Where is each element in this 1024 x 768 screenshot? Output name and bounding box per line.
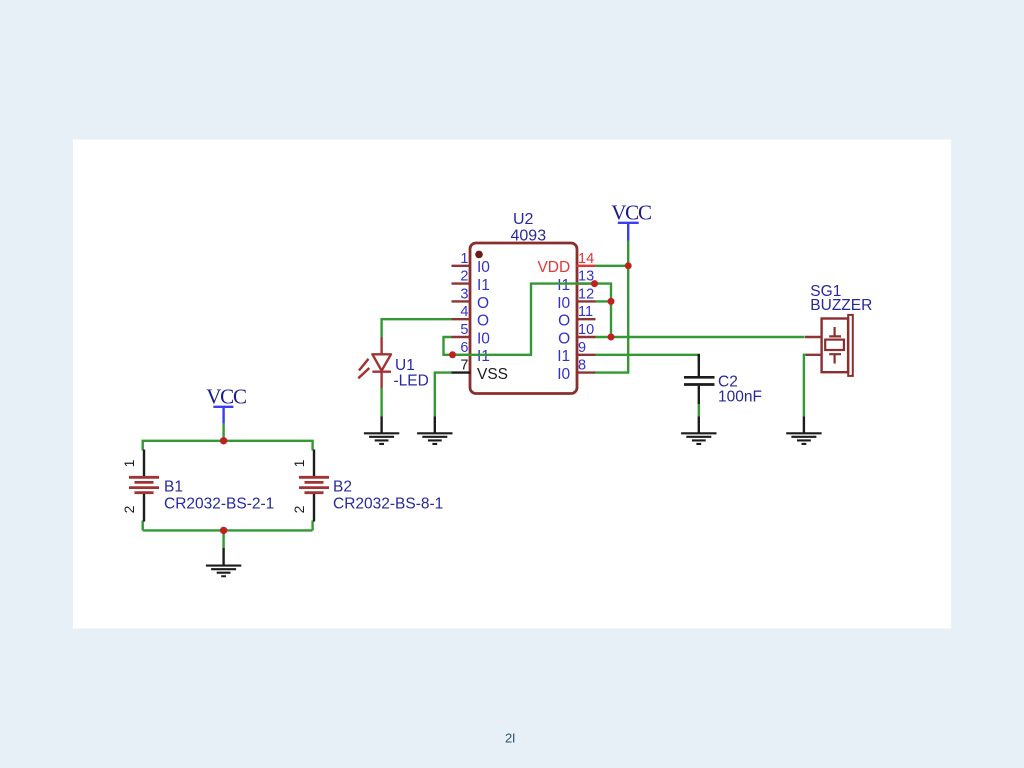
svg-text:I0: I0: [477, 330, 490, 347]
svg-text:3: 3: [460, 286, 468, 302]
U2 pin 11: [558, 304, 595, 329]
svg-text:O: O: [477, 313, 489, 330]
svg-text:-LED: -LED: [394, 372, 429, 389]
buzzer SG1: [805, 283, 872, 376]
svg-text:14: 14: [578, 251, 594, 267]
svg-text:I0: I0: [557, 295, 570, 312]
svg-text:VCC: VCC: [206, 385, 246, 409]
svg-text:I0: I0: [477, 259, 490, 276]
wire C2 to ground: [698, 404, 700, 417]
svg-text:6: 6: [460, 340, 468, 356]
U2 pin 7: [452, 358, 509, 383]
U2 pin-1 mark: [475, 251, 483, 259]
U2 pin 1: [452, 251, 491, 276]
svg-text:1: 1: [460, 251, 468, 267]
ground LED: [364, 417, 399, 444]
ground VSS: [417, 417, 452, 444]
svg-text:4093: 4093: [511, 228, 547, 245]
svg-text:5: 5: [460, 322, 468, 338]
svg-text:2: 2: [460, 269, 468, 285]
svg-text:2I: 2I: [505, 731, 515, 746]
U2 pin 14: [537, 251, 595, 276]
svg-text:O: O: [558, 330, 570, 347]
svg-text:BUZZER: BUZZER: [810, 297, 872, 314]
svg-text:7: 7: [460, 358, 468, 374]
svg-text:U2: U2: [513, 211, 534, 228]
power VCC (battery): [206, 385, 246, 424]
svg-text:2: 2: [291, 505, 307, 513]
svg-text:12: 12: [578, 286, 594, 302]
svg-text:B1: B1: [164, 479, 183, 496]
svg-text:10: 10: [578, 322, 594, 338]
U2 pin 10: [558, 322, 595, 347]
svg-text:I1: I1: [477, 348, 490, 365]
U2 pin 9: [557, 340, 595, 365]
SG1 pin 2: [806, 354, 822, 356]
svg-text:O: O: [477, 295, 489, 312]
wire pin13 to pin12 to pin10: [595, 284, 612, 337]
svg-text:VSS: VSS: [477, 366, 508, 383]
U2 pin 4: [452, 304, 490, 329]
svg-text:I1: I1: [477, 277, 490, 294]
SG1 pin 1: [805, 336, 822, 338]
wire battery bottom rail: [143, 521, 313, 549]
wire pin9 to C2: [596, 355, 699, 362]
svg-text:1: 1: [121, 459, 137, 467]
U2 pin 5: [452, 322, 491, 347]
svg-text:11: 11: [578, 304, 593, 320]
junction pin12: [608, 298, 615, 305]
U2 pin 2: [452, 269, 490, 294]
svg-text:8: 8: [578, 358, 586, 374]
svg-text:9: 9: [578, 340, 586, 356]
svg-text:I1: I1: [557, 348, 570, 365]
U2 pin 6: [452, 340, 490, 365]
U2 pin 13: [557, 269, 595, 294]
U2 pin 12: [557, 286, 595, 311]
junction pin13: [591, 280, 598, 287]
U2 pin 8: [557, 358, 595, 383]
LED U1: [358, 337, 429, 389]
svg-text:100nF: 100nF: [718, 389, 762, 406]
capacitor C2: [684, 354, 762, 406]
junction pin10: [608, 334, 615, 341]
wire LED to ground: [380, 388, 382, 417]
wire pin5 to pin6: [444, 337, 453, 355]
svg-text:1: 1: [291, 459, 307, 467]
svg-text:CR2032-BS-8-1: CR2032-BS-8-1: [333, 496, 443, 513]
ground C2: [681, 417, 716, 444]
svg-text:I1: I1: [557, 277, 570, 294]
svg-text:4: 4: [460, 304, 468, 320]
battery B2: [291, 450, 443, 522]
svg-text:I0: I0: [557, 366, 570, 383]
wire pin7 to ground: [435, 373, 452, 417]
junction battery bottom: [220, 527, 227, 534]
svg-text:VDD: VDD: [537, 259, 570, 276]
U2 pin 3: [452, 286, 490, 311]
junction battery top: [220, 437, 227, 444]
wire VCC rail to pin14 and pin8: [595, 241, 628, 373]
battery B1: [121, 450, 274, 522]
wire buzzer to ground: [804, 355, 806, 417]
svg-text:B2: B2: [333, 479, 352, 496]
power VCC (U2): [611, 200, 651, 240]
ground battery: [206, 548, 241, 576]
ground buzzer: [786, 417, 821, 444]
junction pin6: [449, 351, 456, 358]
junction pin14: [625, 262, 632, 269]
wire pin10 to buzzer: [596, 336, 805, 338]
wire pin6 to pin13 (through body): [452, 284, 595, 355]
svg-text:VCC: VCC: [611, 200, 651, 224]
wire pin4 to LED: [382, 319, 452, 338]
IC U2 4093: [470, 211, 577, 394]
wire VCC to battery top rail: [222, 424, 224, 441]
svg-text:O: O: [558, 313, 570, 330]
svg-text:2: 2: [121, 505, 137, 513]
wire battery top rail: [143, 440, 313, 451]
svg-text:CR2032-BS-2-1: CR2032-BS-2-1: [164, 496, 274, 513]
